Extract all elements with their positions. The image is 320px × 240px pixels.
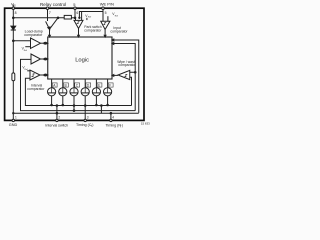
node pin6 junction [74, 17, 76, 19]
label F [108, 83, 113, 87]
pin timing RT (pin 4) [110, 113, 112, 120]
wire U3 upper input [130, 71, 135, 73]
output driver Q3 [59, 79, 67, 96]
wire U3 output to logic [112, 74, 118, 76]
op-amp T1 load-dump comparator [31, 38, 41, 48]
svg-text:GND: GND [9, 123, 18, 127]
svg-text:3: 3 [87, 116, 89, 120]
svg-text:comparator: comparator [27, 87, 45, 91]
svg-text:F: F [109, 84, 111, 88]
node base junction [57, 17, 59, 19]
wire tap to comparator T1 [13, 40, 30, 42]
wire to GND pin [12, 81, 14, 121]
svg-text:comparator: comparator [84, 28, 102, 32]
wire bias chain down [12, 41, 14, 73]
label E [97, 83, 102, 87]
output driver Q5 [81, 79, 89, 96]
wire U2 output [104, 30, 106, 38]
svg-text:7: 7 [49, 11, 51, 15]
svg-text:): ) [92, 123, 93, 127]
wire U3 lower input [130, 77, 132, 105]
comparator U3 wipe/wash (left) [118, 70, 130, 79]
svg-text:2: 2 [58, 116, 60, 120]
wire rail to U1 [75, 18, 77, 21]
zener diode D1 [11, 18, 16, 41]
svg-text:comparator: comparator [110, 30, 128, 34]
op-amp T3 interval comparator [30, 70, 40, 80]
logic block [48, 37, 112, 79]
wire loop to U1 right input [79, 12, 103, 18]
svg-text:4: 4 [112, 116, 114, 120]
output driver Q7 [104, 79, 112, 96]
rail R4 [13, 112, 138, 114]
wire U1 output [78, 29, 80, 38]
wire driver drops [51, 96, 53, 106]
wire riser to logic right (R4) [112, 40, 139, 113]
svg-text:Ref: Ref [88, 17, 92, 19]
svg-text:5: 5 [105, 11, 107, 15]
op-amp T2 comparator [31, 54, 41, 64]
pin Vs (pin 8) [12, 5, 14, 18]
resistor R1 (bias) [64, 15, 71, 19]
svg-text:6: 6 [76, 11, 78, 15]
label C [75, 83, 80, 87]
pin GND (pin 1) [12, 119, 14, 121]
resistor R2 (bias chain) [12, 73, 15, 81]
pin timing CT (pin 3) [84, 119, 86, 121]
output driver Q4 [70, 79, 78, 96]
node Vs rail junction [13, 17, 15, 19]
wire VRef stub to U1 [86, 18, 88, 20]
svg-text:15 633: 15 633 [141, 122, 150, 126]
svg-text:Timing (R: Timing (R [106, 124, 122, 128]
Vs rail wire [13, 17, 64, 19]
pin WE P/N (pin 5) [102, 7, 104, 21]
svg-text:Logic: Logic [75, 58, 89, 64]
pin interval switch (pin 2) [56, 106, 58, 121]
svg-text:comparator: comparator [24, 33, 43, 37]
svg-text:WE P/N: WE P/N [100, 1, 114, 6]
wire VRef to U2 [107, 16, 109, 21]
label B [64, 83, 69, 87]
svg-text:Interval switch: Interval switch [45, 124, 68, 128]
wire VRef stub to T3 [27, 70, 30, 72]
rail R3 [21, 59, 136, 110]
wire Q1 emitter to logic [49, 29, 51, 37]
svg-text:Ref: Ref [115, 16, 119, 18]
rail R2 [25, 78, 131, 105]
svg-text:8: 8 [15, 11, 17, 15]
label A [52, 83, 57, 87]
output driver Q2 [48, 79, 56, 96]
IC boundary [5, 8, 144, 120]
svg-text:1: 1 [15, 116, 17, 120]
svg-text:Relay control: Relay control [40, 2, 66, 7]
label D [86, 83, 91, 87]
comparator U1 park switch (down) [74, 20, 83, 28]
wire VRef stub to T1 lower input [25, 46, 30, 48]
output driver Q6 [92, 79, 100, 96]
pin 6 terminal (labelled 5 above) [74, 7, 76, 18]
comparator U2 input comparator (down) [101, 21, 110, 29]
node zener tap [13, 40, 15, 42]
svg-text:Ref: Ref [24, 50, 28, 52]
svg-text:): ) [122, 124, 123, 128]
svg-text:Timing (C: Timing (C [76, 123, 92, 127]
svg-text:comparator: comparator [118, 63, 136, 67]
transistor Q1 relay driver [46, 18, 58, 30]
wire riser to logic right (R3) [112, 44, 135, 111]
pin Relay control (pin 7) [46, 7, 48, 21]
